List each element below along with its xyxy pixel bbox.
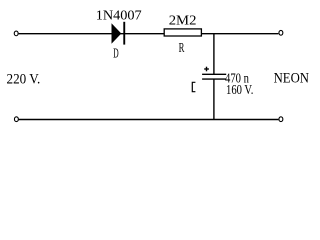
svg-text:1N4007: 1N4007 <box>96 7 142 23</box>
svg-text:160 V.: 160 V. <box>226 82 253 98</box>
wire: top net from 220V input through D and R to NEON <box>19 33 279 35</box>
label: capacitor designator C <box>192 82 195 91</box>
resistor R 2M2 <box>164 29 201 36</box>
diode D 1N4007 <box>112 22 126 45</box>
terminal: NEON output bottom-right <box>279 117 283 122</box>
svg-text:D: D <box>113 46 119 61</box>
wire: capacitor top lead (junction at top net) <box>213 34 215 75</box>
wire: capacitor bottom lead (junction at bottom net) <box>213 79 215 119</box>
svg-text:NEON: NEON <box>274 71 309 87</box>
terminal: NEON output top-right <box>279 30 283 35</box>
terminal: mains input bottom-left <box>14 117 18 122</box>
capacitor polarity mark + <box>204 67 209 72</box>
capacitor C (plates) <box>202 74 226 79</box>
svg-text:2M2: 2M2 <box>169 13 197 29</box>
svg-text:220 V.: 220 V. <box>7 71 41 88</box>
wire: bottom net from 220V input to NEON <box>19 119 279 121</box>
svg-text:R: R <box>179 40 185 56</box>
terminal: mains input top-left <box>14 31 18 36</box>
